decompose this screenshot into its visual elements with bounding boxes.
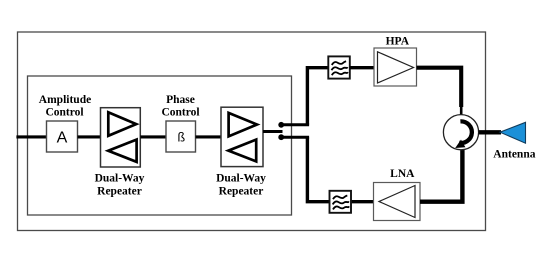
- svg-text:Control: Control: [161, 107, 199, 119]
- circulator CR1 circle: [443, 115, 478, 150]
- wire divider lower branch: [281, 136, 309, 139]
- svg-text:Phase: Phase: [166, 94, 195, 106]
- wire divider upper branch: [281, 123, 309, 126]
- U1 reverse amplifier triangle: [108, 140, 136, 162]
- svg-text:Antenna: Antenna: [493, 148, 535, 160]
- antenna horn (blue): [500, 122, 526, 143]
- U2 reverse amplifier triangle: [228, 140, 256, 162]
- band-pass filter FL1 (transmit): [328, 56, 350, 78]
- svg-text:Amplitude: Amplitude: [39, 94, 91, 106]
- dual-way repeater U1 box: [101, 108, 141, 167]
- wire input: [16, 135, 46, 138]
- svg-text:Dual-Way: Dual-Way: [95, 173, 145, 185]
- svg-text:HPA: HPA: [386, 35, 410, 47]
- label Dual-Way Repeater (U2): [216, 173, 266, 198]
- band-pass filter FL2 (receive): [330, 191, 352, 213]
- amplifier HPA box: [374, 48, 417, 86]
- amplifier LNA box: [374, 183, 421, 221]
- wire riser to transmit path: [307, 68, 328, 125]
- svg-text:Dual-Way: Dual-Way: [216, 173, 266, 185]
- phase shifter B1 (Phase Control): [166, 121, 196, 152]
- wire repeater2 output stub: [263, 130, 283, 133]
- svg-text:A: A: [57, 129, 68, 146]
- wire circulator to antenna: [479, 130, 501, 134]
- svg-text:Repeater: Repeater: [97, 186, 142, 198]
- wire LNA to circulator (bottom right corner): [420, 150, 462, 202]
- HPA triangle: [378, 52, 414, 83]
- wire phase shifter to repeater2: [196, 135, 222, 138]
- LNA triangle: [379, 186, 415, 218]
- svg-text:LNA: LNA: [390, 168, 415, 180]
- wire dropper to receive path: [307, 137, 329, 202]
- U1 forward amplifier triangle: [108, 112, 136, 136]
- svg-text:ß: ß: [177, 131, 185, 145]
- U2 forward amplifier triangle: [229, 113, 257, 136]
- label Phase Control: [161, 94, 199, 119]
- node divider upper port dot: [278, 122, 284, 128]
- dual-way repeater U2 box: [221, 107, 263, 166]
- svg-text:Control: Control: [45, 107, 83, 119]
- label Amplitude Control: [39, 94, 91, 119]
- attenuator A1 (Amplitude Control): [47, 121, 78, 152]
- wire repeater1 to phase shifter: [140, 135, 166, 138]
- outer enclosure box: [18, 32, 486, 231]
- wire A to repeater1: [78, 135, 101, 138]
- svg-text:Repeater: Repeater: [219, 186, 264, 198]
- inner enclosure box: [28, 76, 292, 215]
- label Dual-Way Repeater (U1): [95, 173, 145, 198]
- wire thin stub into circulator top: [460, 106, 463, 115]
- wire receive: FL2 to LNA: [351, 200, 374, 203]
- circulator rotation arrow arc: [459, 121, 472, 143]
- node divider lower port dot: [278, 134, 284, 140]
- wire FL1 to HPA: [350, 66, 374, 69]
- wire HPA to circulator (top right corner): [417, 68, 462, 107]
- circulator arrow head: [455, 140, 465, 148]
